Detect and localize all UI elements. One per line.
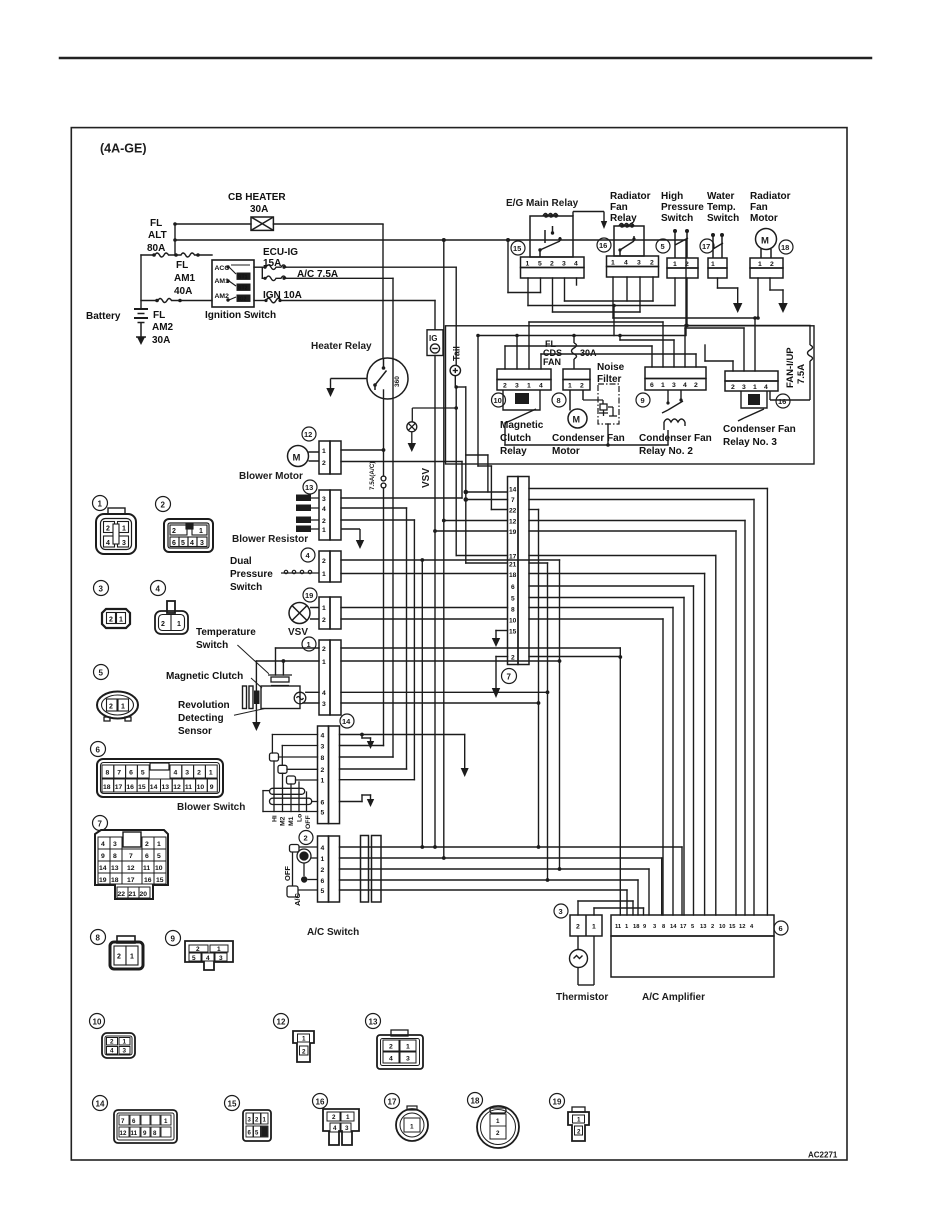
svg-text:3: 3 [322,496,326,503]
svg-text:13: 13 [700,924,707,930]
svg-text:10: 10 [93,1018,102,1027]
svg-text:3: 3 [200,540,204,547]
svg-text:2: 2 [322,646,326,653]
noise filter [598,384,619,424]
A/C switch left elements [287,845,318,898]
svg-text:1: 1 [209,770,213,777]
thermistor element [570,936,595,985]
svg-text:15: 15 [138,784,146,791]
svg-text:3: 3 [515,383,519,390]
svg-text:16: 16 [144,877,152,884]
svg-text:18: 18 [509,572,517,579]
wire pin21 line [466,562,508,564]
svg-text:2: 2 [322,460,326,467]
svg-text:4: 4 [190,540,194,547]
svg-text:Switch: Switch [230,582,262,593]
svg-text:10: 10 [494,396,502,405]
svg-text:1: 1 [322,448,326,455]
svg-text:17: 17 [115,784,123,791]
svg-text:2: 2 [511,655,515,662]
wire blower motor pin2 to resistor pin3 [341,462,462,499]
svg-text:12: 12 [509,519,517,526]
wire +B bus x443.8 to pin12 [443,240,445,521]
svg-text:9: 9 [641,396,645,405]
wire E/G pin drops [527,278,529,306]
wire RFM pin2 ground [769,278,771,290]
svg-text:Blower Resistor: Blower Resistor [232,534,308,545]
svg-text:1: 1 [322,659,326,666]
svg-text:2: 2 [161,501,166,510]
circled 5 [656,239,670,253]
svg-text:30A: 30A [152,335,170,346]
svg-text:1: 1 [526,261,530,268]
svg-text:2: 2 [577,1129,581,1136]
svg-text:2: 2 [106,526,110,533]
wire y445 bottom bus [505,444,668,446]
wire CB heater to relay [382,224,384,358]
feeds from pins 4,3 [272,734,317,736]
svg-text:E/G Main Relay: E/G Main Relay [506,198,579,209]
svg-text:2: 2 [109,617,113,624]
svg-text:3: 3 [185,770,189,777]
svg-text:14: 14 [150,784,158,791]
svg-text:6: 6 [145,853,149,860]
svg-text:M: M [573,415,581,425]
connector 10 physical [90,1014,105,1029]
svg-text:15: 15 [513,244,521,253]
rotated lever labels [272,814,313,829]
wire IGN line to IG box [281,300,435,302]
thermistor wires to amp area [578,901,644,915]
svg-text:3: 3 [321,744,325,751]
connector 12 physical [274,1014,289,1029]
svg-text:16: 16 [316,1098,325,1107]
svg-text:7: 7 [129,853,133,860]
svg-text:80A: 80A [147,243,165,254]
svg-text:FL: FL [150,218,162,229]
wire +B down at x686 [685,240,687,336]
wire y312 to RF pin3 [553,311,641,313]
svg-text:Radiator: Radiator [610,191,651,202]
svg-text:M1: M1 [288,816,295,826]
svg-text:3: 3 [406,1056,410,1063]
svg-text:30A: 30A [580,348,597,358]
wire bus 422.3 from dual pressure [421,560,423,847]
svg-text:12: 12 [277,1018,286,1027]
svg-text:Magnetic Clutch: Magnetic Clutch [166,671,243,682]
svg-text:12: 12 [304,430,312,439]
svg-text:1: 1 [611,260,615,267]
svg-text:12: 12 [739,924,745,930]
wire heater relay output bus x383.5 [340,278,394,757]
svg-text:5: 5 [157,853,161,860]
wire E/G to RF relay feed arrow [573,212,604,223]
blower motor M12 [288,441,342,474]
connector 18 physical [468,1093,483,1108]
svg-text:1: 1 [121,704,125,711]
connector 13 physical [366,1014,381,1029]
svg-text:14: 14 [670,924,677,930]
svg-text:1: 1 [322,605,326,612]
svg-text:2: 2 [197,770,201,777]
svg-text:ST2: ST2 [238,285,248,291]
grouping box [446,326,815,464]
svg-text:4: 4 [322,690,326,697]
svg-text:3: 3 [123,1048,127,1055]
svg-text:ALT: ALT [148,230,167,241]
svg-text:12: 12 [127,865,135,872]
wire pin22 route bus x478 [444,240,508,858]
svg-text:4: 4 [683,382,687,389]
svg-text:Condenser Fan: Condenser Fan [552,433,625,444]
connector 8 physical [91,930,106,945]
wire IG bus x435 [435,301,508,848]
svg-text:1: 1 [577,1117,581,1124]
svg-text:A/C Amplifier: A/C Amplifier [642,992,705,1003]
svg-text:2: 2 [576,924,580,931]
svg-text:VSV: VSV [421,468,432,488]
svg-text:1: 1 [711,261,715,268]
fuse 7.5A A/C link circles [381,476,386,481]
circled 19 [303,588,317,602]
radiator fan motor M18 [750,229,783,279]
svg-text:Dual: Dual [230,556,252,567]
pin2 left arrow [496,657,508,689]
wires A/C switch to amplifier [340,847,683,915]
svg-text:2: 2 [196,946,200,953]
revolution sensor [294,692,306,704]
FL CDS FAN fuse [478,336,686,370]
mag relay internals [503,390,540,423]
svg-text:2: 2 [172,528,176,535]
svg-text:14: 14 [509,487,517,494]
box interior wires [478,318,755,466]
svg-text:1: 1 [496,1118,500,1125]
svg-text:2: 2 [322,617,326,624]
top rule [60,57,871,60]
svg-text:10: 10 [155,865,163,872]
svg-text:1: 1 [406,1044,410,1051]
wire FL AM2 line [141,299,212,303]
svg-text:6: 6 [132,1118,136,1125]
connector 1 physical [93,496,108,511]
svg-text:A/C 7.5A: A/C 7.5A [297,269,338,280]
power section labels [86,192,338,346]
svg-text:7: 7 [98,820,103,829]
svg-text:AM2: AM2 [152,322,174,333]
wires below top relay row [508,240,810,336]
illumination lamp branch [407,408,456,443]
svg-text:Radiator: Radiator [750,191,791,202]
svg-text:14: 14 [96,1100,105,1109]
svg-text:1: 1 [346,1114,350,1121]
svg-text:Switch: Switch [707,213,739,224]
svg-text:M: M [293,453,301,464]
svg-text:2: 2 [110,1039,114,1046]
svg-text:1: 1 [527,383,531,390]
svg-text:FL: FL [176,260,188,271]
svg-text:5: 5 [511,596,515,603]
pin15 ground [496,631,508,639]
svg-text:13: 13 [162,784,170,791]
wire blower motor pin1 junction [341,449,384,451]
svg-text:2: 2 [580,383,584,390]
wires connector14 right side [340,735,465,802]
svg-text:Condenser Fan: Condenser Fan [639,433,712,444]
svg-text:IG: IG [429,334,437,343]
svg-text:30A: 30A [250,204,268,215]
svg-text:VSV: VSV [288,627,308,638]
svg-text:4: 4 [333,1125,337,1132]
svg-text:1: 1 [321,778,325,785]
svg-text:5: 5 [538,261,542,268]
wire pin7 line [466,499,508,501]
svg-text:360: 360 [394,376,401,387]
svg-text:Noise: Noise [597,362,625,373]
svg-text:2: 2 [117,954,121,961]
wire ECU-IG bus to Tail [455,267,507,563]
circled 7 [502,669,517,684]
connector 4 physical [151,581,166,596]
svg-text:1: 1 [321,856,325,863]
wire conn1 pin1 long [341,660,560,662]
svg-text:3: 3 [122,540,126,547]
connector 7 physical [93,816,108,831]
svg-text:7: 7 [507,673,512,682]
svg-text:2: 2 [711,924,714,930]
svg-text:3: 3 [672,382,676,389]
svg-text:5: 5 [181,540,185,547]
circled 12 [302,427,316,441]
svg-text:10: 10 [197,784,205,791]
svg-text:19: 19 [305,591,313,600]
wire ignition to fuses bracket [254,266,262,268]
A/C amplifier box 6 [611,915,774,977]
VSV V19 [289,597,341,629]
dual pressure switch S4 [319,551,341,582]
svg-text:7: 7 [511,497,515,504]
svg-text:1: 1 [122,526,126,533]
svg-text:Temperature: Temperature [196,627,256,638]
svg-text:11: 11 [185,784,192,791]
svg-text:Battery: Battery [86,311,121,322]
wire battery bus [140,255,142,308]
outer frame [71,128,847,1160]
svg-text:20: 20 [140,891,148,898]
svg-text:40A: 40A [174,286,192,297]
wire dual pressure pin1 to pin18 [341,573,508,575]
svg-text:FAN: FAN [543,357,561,367]
fuse CB HEATER box [251,217,273,230]
ignition switch box [212,260,254,307]
svg-text:7.5A(A/C): 7.5A(A/C) [369,462,376,490]
svg-text:4: 4 [321,845,325,852]
high pressure switch S5 [667,232,698,278]
svg-text:1: 1 [302,1036,306,1043]
svg-text:Revolution: Revolution [178,700,230,711]
svg-text:Fan: Fan [750,202,768,213]
wire VSV pin2 to pin10 [341,618,508,620]
svg-text:1: 1 [410,1124,414,1131]
svg-text:4: 4 [174,770,178,777]
condenser fan relay No.3 (16) [725,371,778,391]
wire FAN-I/UP feed y325.5 [686,325,810,327]
magnetic clutch relay (10) [497,369,551,390]
circled 13 [303,480,317,494]
wire +B line y=240 [175,239,686,241]
svg-text:2: 2 [694,382,698,389]
IG connector [427,330,443,356]
svg-text:15: 15 [228,1100,237,1109]
svg-text:Heater Relay: Heater Relay [311,341,372,352]
svg-text:3: 3 [742,384,746,391]
ground arrow RFM [778,303,787,313]
svg-text:1: 1 [123,1039,127,1046]
svg-text:8: 8 [96,934,101,943]
svg-text:6: 6 [172,540,176,547]
wire ECU-IG line to bus [286,266,456,268]
svg-text:11: 11 [131,1130,138,1137]
condenser fan motor connector (8) [563,369,590,390]
svg-text:Magnetic: Magnetic [500,420,544,431]
circled 18 [779,240,793,254]
svg-text:7: 7 [121,1118,125,1125]
svg-text:4: 4 [389,1056,393,1063]
svg-text:Motor: Motor [552,446,580,457]
svg-text:3: 3 [322,701,326,708]
FAN-I/UP 7.5A fuse [770,326,813,401]
svg-text:1: 1 [673,261,677,268]
wire IGN output [254,300,266,302]
svg-text:1: 1 [164,1118,168,1125]
svg-text:5: 5 [321,810,325,817]
connector 3 physical [94,581,109,596]
svg-text:Switch: Switch [196,640,228,651]
svg-text:5: 5 [661,242,665,251]
wire y328 relay2 pin4 to relay3 pin3 [685,327,744,329]
svg-text:FAN-I/UP: FAN-I/UP [785,347,796,388]
relay2 internals [662,390,685,445]
circled 10 mag relay [492,393,506,407]
svg-text:6: 6 [511,584,515,591]
circled 14 [340,714,354,728]
circled 16 [597,238,611,252]
svg-text:18: 18 [103,784,111,791]
fuse A/C 7.5A squiggle [262,276,286,281]
circled 15 [511,241,525,255]
svg-text:AM1: AM1 [174,273,196,284]
svg-text:15: 15 [509,629,517,636]
svg-text:OFF: OFF [305,815,312,829]
wire y292.5 [508,292,541,294]
svg-text:Temp.: Temp. [707,202,736,213]
svg-text:7.5A: 7.5A [796,364,807,384]
svg-text:A/C: A/C [293,893,302,907]
svg-text:High: High [661,191,683,202]
svg-text:OFF: OFF [283,866,292,881]
svg-text:2: 2 [496,1130,500,1137]
svg-text:10: 10 [719,924,725,930]
svg-text:1: 1 [753,384,757,391]
svg-text:15: 15 [729,924,736,930]
svg-text:Motor: Motor [750,213,778,224]
Tail pickup [450,365,460,375]
svg-text:2: 2 [321,767,325,774]
svg-text:2: 2 [304,834,308,843]
svg-text:12: 12 [173,784,181,791]
svg-text:18: 18 [781,243,789,252]
svg-text:CB HEATER: CB HEATER [228,192,286,203]
svg-text:8: 8 [153,1130,157,1137]
svg-text:13: 13 [305,483,313,492]
step ground pin4 [361,735,363,739]
svg-text:13: 13 [369,1018,378,1027]
wire conn1 pin3 long [341,702,539,704]
svg-text:2: 2 [322,518,326,525]
temperature switch element [268,675,292,686]
svg-text:10: 10 [509,618,517,625]
svg-text:Blower Switch: Blower Switch [177,802,245,813]
svg-text:2: 2 [389,1044,393,1051]
svg-text:5: 5 [192,955,196,962]
connector 1 clutch/sensor [319,640,341,715]
svg-text:8: 8 [511,607,515,614]
svg-text:1: 1 [177,621,181,628]
battery symbol [134,309,148,337]
svg-text:8: 8 [113,853,117,860]
wire +B branch to E/G relay [507,240,509,293]
svg-text:9: 9 [210,784,214,791]
svg-text:3: 3 [637,260,641,267]
thermistor connector 3 [570,915,602,936]
blower resistor R13 [319,490,341,540]
svg-text:IG2: IG2 [238,296,246,302]
svg-text:2: 2 [322,558,326,565]
resistor element [300,498,319,529]
svg-text:17: 17 [680,924,686,930]
svg-text:6: 6 [321,878,325,885]
svg-text:Sensor: Sensor [178,726,212,737]
svg-text:15A: 15A [263,258,281,269]
svg-text:6: 6 [650,382,654,389]
svg-text:21: 21 [509,562,517,569]
svg-text:1: 1 [157,841,161,848]
svg-text:Condenser Fan: Condenser Fan [723,424,796,435]
svg-text:Detecting: Detecting [178,713,224,724]
wire resistor pin4 to bus 406.5 [340,508,415,780]
wire WT switch ground [717,278,719,288]
radiator fan relay U16 [607,224,659,278]
wire dual pressure pin2 long line [341,560,560,847]
svg-text:3: 3 [562,261,566,268]
svg-text:1: 1 [130,954,134,961]
svg-text:8: 8 [321,755,325,762]
circled 8 [552,393,566,407]
wire bottom bus exit [477,336,479,467]
triple verticals to switch lines [529,510,560,881]
svg-text:6: 6 [129,770,133,777]
svg-text:1: 1 [592,924,596,931]
wire FL CDS tap to mag relay pin3 [516,336,518,370]
svg-text:6: 6 [321,800,325,807]
svg-text:2: 2 [731,384,735,391]
svg-text:16: 16 [778,397,786,406]
svg-text:1: 1 [568,383,572,390]
circled 17 [700,239,714,253]
svg-text:4: 4 [110,1048,114,1055]
svg-text:1: 1 [199,528,203,535]
wire y354 [541,353,696,355]
